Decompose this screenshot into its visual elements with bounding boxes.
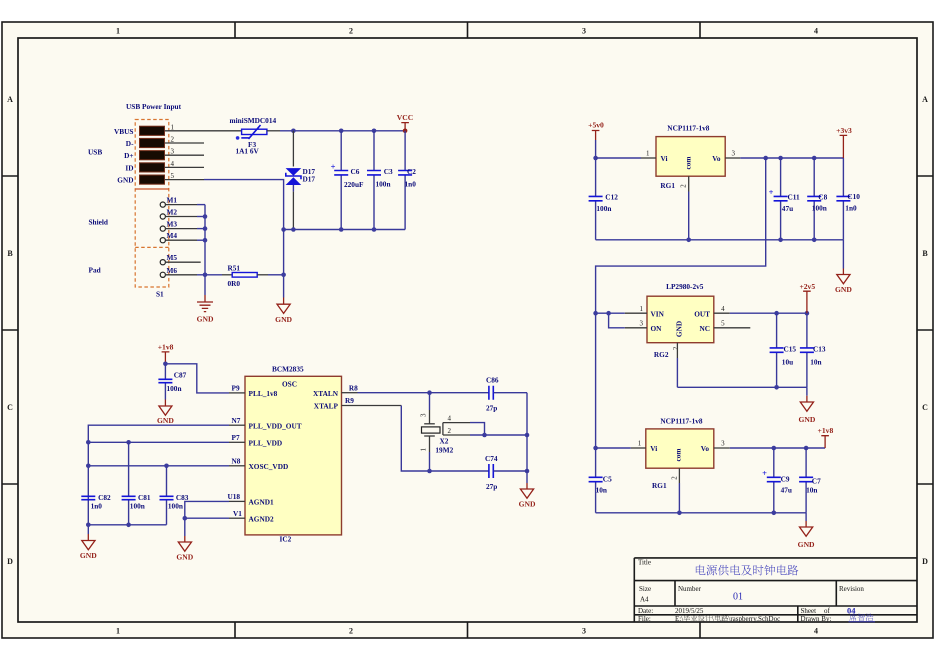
svg-text:GND: GND [798,415,815,424]
junction [203,214,208,277]
svg-text:U18: U18 [228,492,241,501]
svg-text:2: 2 [349,627,353,636]
svg-text:Drawn By:: Drawn By: [801,615,832,623]
svg-text:3: 3 [582,627,586,636]
svg-text:10n: 10n [810,358,821,367]
svg-text:100n: 100n [596,204,611,213]
power port +1v8 [818,426,834,448]
svg-text:+: + [762,468,767,478]
svg-text:3: 3 [721,440,725,448]
wire P7 net [88,441,229,443]
pin 2 gnd stub reg3 [678,468,680,513]
junction [427,390,432,395]
ground GND under AGND [176,536,193,561]
svg-text:B: B [922,249,928,258]
svg-text:ON: ON [651,324,663,333]
wire xtal right rail [526,393,528,483]
capacitor C81 100n [122,442,151,525]
svg-text:4: 4 [448,415,452,423]
svg-text:1n0: 1n0 [91,501,103,510]
svg-text:D: D [922,557,928,566]
capacitor C12 100n [589,192,619,213]
svg-text:04: 04 [847,606,856,616]
wire pin5 GND net [165,180,284,230]
capacitor C87 100n [158,364,186,400]
svg-text:M2: M2 [167,208,178,217]
svg-text:P9: P9 [232,384,240,393]
svg-text:LP2980-2v5: LP2980-2v5 [666,282,704,291]
junction [677,511,776,516]
svg-text:X2: X2 [440,436,449,445]
fuse F3 miniSMDC014 [230,116,277,155]
svg-text:100n: 100n [812,203,827,212]
svg-text:Title: Title [638,559,651,567]
junction [281,227,376,232]
junction [86,440,169,468]
svg-text:AGND1: AGND1 [249,498,274,507]
svg-text:Vo: Vo [712,154,721,163]
svg-text:47u: 47u [781,486,792,495]
resistor R51 0R0 [228,263,284,288]
svg-text:USB: USB [88,148,102,157]
svg-text:2: 2 [672,346,680,350]
pin 2 of crystal [443,427,527,435]
svg-text:com: com [684,157,693,170]
svg-text:P7: P7 [232,433,240,442]
svg-text:OUT: OUT [694,310,710,319]
wire gnd bus reg1 [596,240,844,269]
svg-text:VIN: VIN [651,310,665,319]
svg-text:C13: C13 [813,344,826,353]
svg-text:0R0: 0R0 [228,279,241,288]
svg-text:3: 3 [171,148,175,156]
svg-text:4: 4 [721,305,725,313]
svg-text:GND: GND [157,416,174,425]
svg-text:GND: GND [176,552,193,561]
junction [772,446,809,451]
svg-text:M5: M5 [167,253,178,262]
svg-text:GND: GND [835,285,852,294]
svg-text:R8: R8 [349,383,358,392]
wire M2 [165,216,205,218]
svg-text:RG2: RG2 [654,350,669,359]
pin ON wire [609,313,647,328]
wire pin3 stub [165,154,205,156]
title block [634,558,917,623]
capacitor C5 10n [589,474,612,494]
svg-text:4: 4 [814,627,818,636]
junction [183,516,188,521]
power port +1v8 (left) [158,343,174,364]
svg-text:1n0: 1n0 [405,180,417,189]
svg-text:220uF: 220uF [344,180,364,189]
svg-text:PLL_VDD_OUT: PLL_VDD_OUT [249,421,302,430]
capacitor C8 100n [807,158,827,240]
svg-text:VBUS: VBUS [114,127,133,136]
svg-text:GND: GND [275,315,292,324]
wire M4 [165,239,205,241]
svg-text:of: of [824,607,831,615]
wire VCC net after fuse [267,130,405,132]
ground GND xtal [519,483,536,508]
svg-text:GND: GND [519,499,536,508]
svg-text:27p: 27p [486,482,497,491]
svg-text:C2: C2 [407,167,416,176]
svg-text:C: C [922,403,928,412]
shield pin M1 [160,196,177,208]
regulator RG1 NCP1117-1v8 (top) [646,123,736,190]
wire pin1 to fuse [165,130,242,132]
svg-text:+2v5: +2v5 [799,282,815,291]
svg-text:N7: N7 [232,416,241,425]
ground GND reg1 [835,269,852,294]
svg-text:Vi: Vi [650,444,657,453]
pin 3 wire +1v8 net [714,447,825,449]
svg-text:2: 2 [671,476,679,480]
svg-text:1A1 6V: 1A1 6V [236,147,260,156]
pin N7 [229,416,245,425]
svg-text:Shield: Shield [89,218,108,227]
svg-text:C10: C10 [847,192,860,201]
svg-text:C15: C15 [784,344,797,353]
pin U18 [228,492,246,501]
svg-text:A4: A4 [640,596,649,604]
svg-text:C8: C8 [818,193,827,202]
svg-text:V1: V1 [233,509,242,518]
power port +5v0 [588,121,604,140]
svg-text:+1v8: +1v8 [158,343,174,352]
svg-text:OSC: OSC [282,379,297,388]
capacitor C86 27p [486,376,527,413]
svg-text:27p: 27p [486,404,497,413]
svg-text:M3: M3 [167,220,178,229]
junction [163,362,168,367]
svg-text:Revision: Revision [839,585,864,593]
svg-text:100n: 100n [168,501,183,510]
svg-text:ID: ID [125,163,133,172]
junction [86,523,131,528]
svg-text:3: 3 [732,150,736,158]
wire M6 to R51 [165,274,232,276]
svg-text:M6: M6 [167,266,178,275]
capacitor C10 1n0 [836,158,860,240]
pin 1 wire reg3 [596,447,646,449]
svg-text:GND: GND [798,540,815,549]
svg-text:com: com [674,449,683,462]
wire M1 [165,204,205,206]
svg-text:1: 1 [640,305,644,313]
svg-text:+: + [331,161,336,171]
svg-text:3: 3 [582,27,586,36]
junction [686,238,816,243]
svg-text:10n: 10n [596,486,607,495]
svg-text:10n: 10n [806,486,817,495]
svg-text:47u: 47u [782,204,793,213]
wire pin4 stub [165,166,205,168]
svg-text:N8: N8 [232,457,241,466]
pin 5 GND pad [117,172,174,185]
junction [774,385,779,390]
svg-text:M1: M1 [167,196,178,205]
capacitor C15 10u [770,313,797,387]
capacitor C83 100n [160,466,189,525]
svg-text:2019/5/25: 2019/5/25 [675,607,704,615]
capacitor C82 1n0 [81,493,111,510]
svg-text:IC2: IC2 [280,535,292,544]
svg-text:5: 5 [721,320,725,328]
wire N7 net [88,425,229,525]
svg-text:NC: NC [699,324,710,333]
crystal X2 19M2 [420,393,454,471]
svg-text:C7: C7 [812,476,821,485]
pin R8 [342,383,359,392]
wire shield rail [204,205,206,295]
svg-text:+: + [769,187,774,197]
pin VIN wire [596,312,647,314]
svg-text:RG1: RG1 [652,481,667,490]
pin OUT wire +2v5 net [714,312,807,314]
pin V1 [229,509,245,518]
shield pin M3 [160,220,177,232]
svg-text:C5: C5 [603,474,612,483]
capacitor C11 47u [769,158,800,240]
svg-text:NCP1117-1v8: NCP1117-1v8 [660,417,703,426]
ground GND reg3 [798,521,815,549]
ground GND (earth) [197,295,214,324]
svg-text:Sheet: Sheet [801,607,817,615]
svg-text:+3v3: +3v3 [836,126,852,135]
svg-text:XTALN: XTALN [313,389,339,398]
svg-text:19M2: 19M2 [435,446,453,455]
op-amp U1 IC BCM2835 IC2 [245,364,342,543]
svg-text:2: 2 [448,427,452,435]
wire gnd bus RG2 [677,387,807,396]
ground GND (triangle) [275,298,292,325]
capacitor C13 10n [800,313,826,387]
junction [774,311,809,316]
junction [763,156,816,161]
capacitor C7 10n [799,448,821,513]
svg-text:VCC: VCC [397,113,413,122]
pin 3 wire +3v3 net [725,157,843,159]
wire M3 [165,228,205,230]
svg-text:C9: C9 [781,474,790,483]
svg-text:R9: R9 [345,396,354,405]
wire AGND net [185,501,229,536]
svg-text:C: C [7,403,13,412]
svg-text:D+: D+ [124,151,133,160]
svg-text:R51: R51 [228,263,241,272]
svg-text:C11: C11 [788,192,801,201]
svg-text:D17: D17 [303,175,316,184]
svg-text:S1: S1 [156,290,164,299]
wire gnd bus reg3 [596,513,807,521]
svg-text:C74: C74 [485,454,498,463]
svg-text:+5v0: +5v0 [588,121,604,130]
svg-text:Vo: Vo [701,444,710,453]
svg-text:1: 1 [116,627,120,636]
capacitor C9 47u [762,448,792,513]
svg-text:1: 1 [420,448,428,452]
ground GND RG2 [798,396,815,424]
svg-text:4: 4 [171,160,175,168]
svg-text:+1v8: +1v8 [818,426,834,435]
shield pin M2 [160,208,177,220]
svg-text:10u: 10u [782,358,793,367]
junction [593,156,598,161]
svg-text:C12: C12 [605,192,618,201]
pin 1 wire [596,157,656,159]
svg-text:Number: Number [678,585,702,593]
capacitor C2 1n0 [398,131,416,230]
pin 2 D- pad [126,136,175,149]
svg-text:XTALP: XTALP [314,402,339,411]
svg-text:1: 1 [638,440,642,448]
svg-text:D: D [7,557,13,566]
wire +1v8 to P9 [165,364,229,393]
capacitor C6 220uF [331,131,364,230]
svg-text:B: B [7,249,13,258]
svg-text:4: 4 [814,27,818,36]
svg-text:GND: GND [80,551,97,560]
svg-text:M4: M4 [167,231,178,240]
svg-text:A: A [922,95,928,104]
regulator RG1 NCP1117-1v8 (bottom) [638,417,725,490]
svg-text:2: 2 [349,27,353,36]
svg-text:A: A [7,95,13,104]
svg-text:C3: C3 [384,167,393,176]
svg-text:01: 01 [733,592,743,603]
wire GND bus [284,229,406,231]
svg-text:AGND2: AGND2 [249,514,274,523]
capacitor C3 100n [367,131,393,230]
svg-text:1: 1 [171,123,175,131]
svg-text:2: 2 [680,184,688,188]
svg-text:Size: Size [639,585,651,593]
power port +3v3 [836,126,852,158]
svg-text:Vi: Vi [661,154,668,163]
svg-text:3: 3 [420,413,428,417]
wire analog gnd bus [88,525,166,534]
svg-text:Pad: Pad [89,266,101,275]
svg-text:GND: GND [197,315,214,324]
svg-text:2: 2 [171,136,175,144]
wire XTALN net [358,392,489,394]
svg-text:E:\: E:\ [675,615,683,623]
svg-text:GND: GND [117,176,133,185]
ground GND left [80,534,97,560]
wire N8 net [88,465,229,467]
ground GND under C87 [157,400,174,426]
svg-text:\raspberry.SchDoc: \raspberry.SchDoc [728,615,780,623]
svg-text:File:: File: [638,615,651,623]
regulator RG2 LP2980-2v5 [640,282,726,359]
svg-text:PLL_VDD: PLL_VDD [249,438,283,447]
wire pin2 stub [165,142,205,144]
svg-text:C6: C6 [351,167,360,176]
power port VCC [397,113,413,131]
pin R9 [342,396,402,405]
capacitor C74 27p [485,454,527,491]
svg-text:C87: C87 [174,371,187,380]
svg-text:miniSMDC014: miniSMDC014 [230,116,277,125]
connector S1 USB Power Input [88,102,182,299]
svg-text:1n0: 1n0 [845,203,857,212]
pad pin M5 [160,253,177,265]
wire GND drop to R51 [283,230,285,298]
junction [281,273,286,278]
junction [291,129,407,134]
svg-text:100n: 100n [167,384,182,393]
svg-text:NCP1117-1v8: NCP1117-1v8 [667,123,710,132]
pad pin M6 [160,266,177,278]
pin P9 [229,384,245,393]
svg-text:1: 1 [116,27,120,36]
pin NC stub [714,327,751,329]
svg-text:C86: C86 [486,376,499,385]
pin 1 VBUS pad [114,123,174,136]
pin P7 [229,433,245,442]
svg-text:1: 1 [646,150,650,158]
pin N8 [229,457,245,466]
wire +3v3 feed to lower regulators [596,158,766,513]
svg-text:5: 5 [171,172,175,180]
shield pin M4 [160,231,177,243]
wire +5v0 rail [595,140,597,240]
svg-text:USB Power Input: USB Power Input [126,102,182,111]
pin 4 of crystal [443,415,485,435]
junction [593,311,611,316]
svg-text:PLL_1v8: PLL_1v8 [249,389,278,398]
pin 2 gnd stub reg1 [688,176,690,240]
svg-text:100n: 100n [376,180,391,189]
power port +2v5 [799,282,815,313]
wire M5 stub [165,261,201,263]
wire XTALP net [401,406,488,472]
TVS diode D17 [286,131,316,230]
pin 3 D+ pad [124,148,174,161]
svg-text:100n: 100n [130,501,145,510]
svg-text:Date:: Date: [638,607,653,615]
svg-text:3: 3 [640,320,644,328]
pin 2 gnd stub RG2 [676,343,678,388]
svg-text:GND: GND [675,321,684,337]
svg-text:XOSC_VDD: XOSC_VDD [249,462,289,471]
svg-text:\: \ [712,615,714,623]
junction [427,433,529,474]
svg-text:RG1: RG1 [660,181,675,190]
svg-text:D-: D- [126,139,134,148]
svg-text:BCM2835: BCM2835 [272,364,304,373]
junction [593,446,598,451]
pin 4 ID pad [125,160,174,173]
